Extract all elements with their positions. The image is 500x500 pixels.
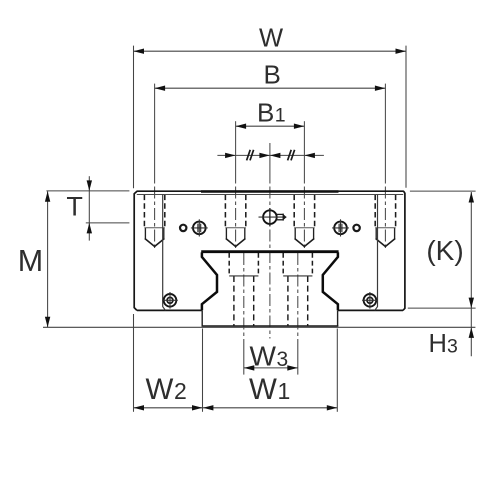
svg-text:W: W: [259, 25, 283, 53]
svg-text:B: B: [264, 59, 281, 89]
svg-text:1: 1: [275, 104, 286, 126]
svg-text:B: B: [257, 97, 274, 127]
svg-text:W: W: [146, 373, 174, 406]
svg-text:1: 1: [278, 378, 291, 404]
svg-text:H: H: [429, 330, 447, 358]
svg-text:W: W: [249, 373, 277, 406]
svg-text:2: 2: [174, 378, 187, 404]
svg-text:W: W: [250, 340, 277, 371]
svg-text:(K): (K): [426, 235, 463, 266]
svg-text:3: 3: [277, 348, 289, 371]
svg-text:M: M: [18, 244, 43, 278]
svg-text:3: 3: [447, 336, 458, 358]
svg-text:T: T: [66, 192, 83, 222]
